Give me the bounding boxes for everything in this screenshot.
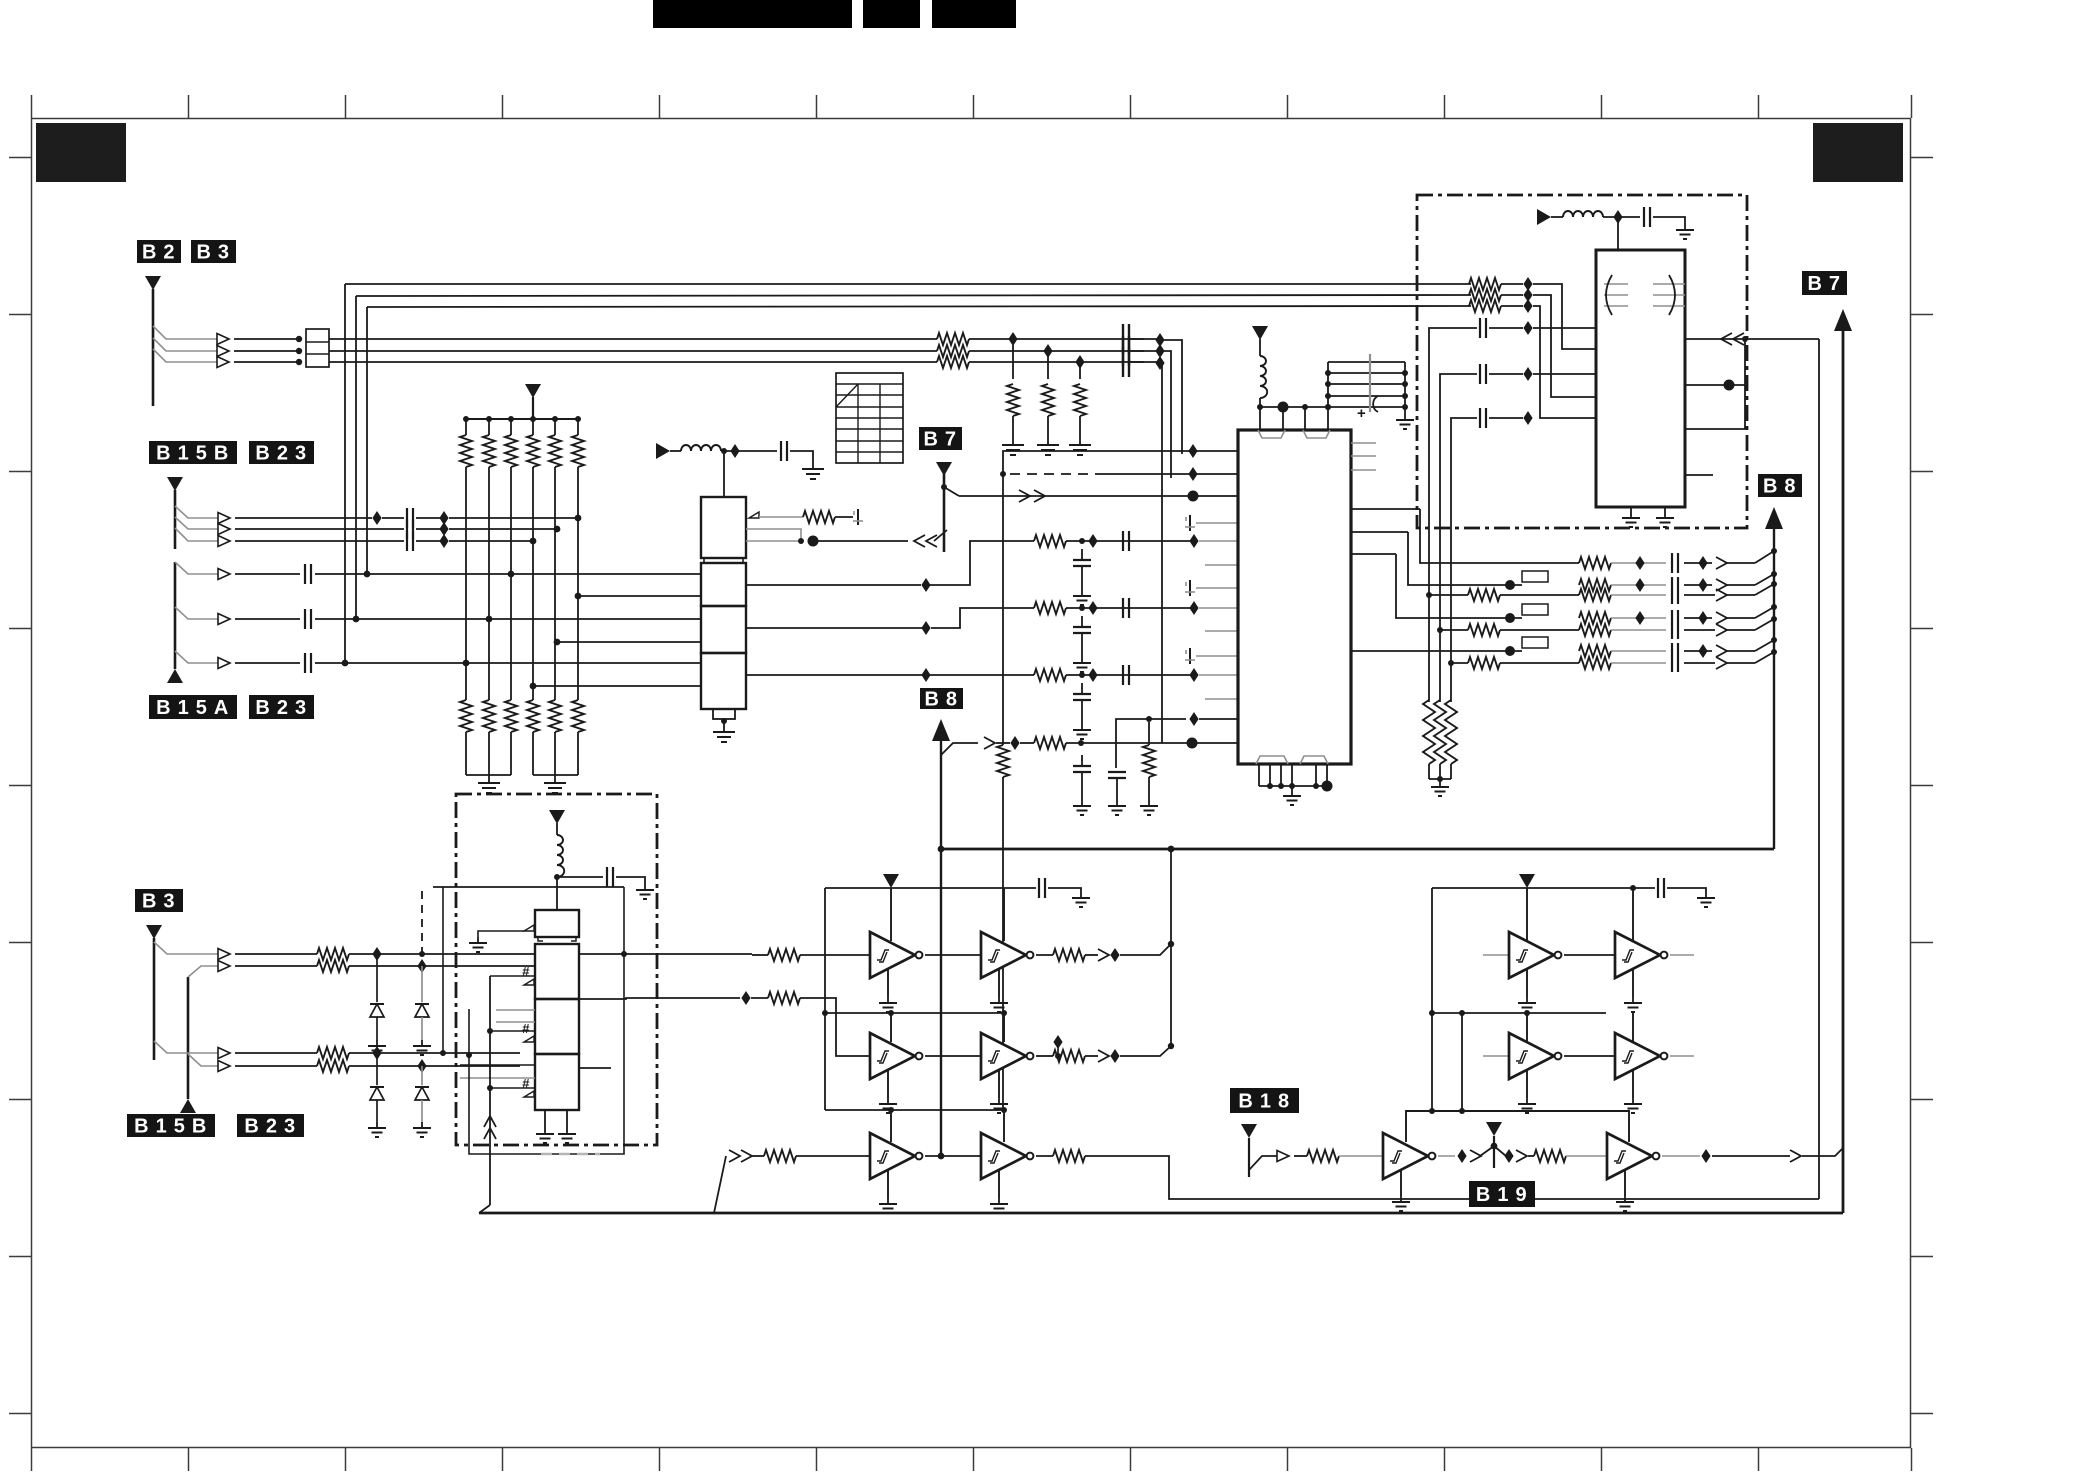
resistor R out row2: [1053, 1050, 1085, 1062]
junction diamond: [741, 991, 750, 1005]
wire: [931, 608, 1034, 628]
junction dot: [1429, 1010, 1435, 1016]
capacitor C rail: [1658, 878, 1664, 898]
resistor R b19: [1534, 1150, 1566, 1162]
resistor R row 3: [1034, 669, 1066, 681]
wire b15b-2: [235, 528, 404, 530]
wire: [1611, 617, 1666, 619]
arrow: [218, 949, 230, 960]
wire: [1630, 507, 1632, 512]
wire branch 2: [175, 517, 222, 529]
resistor R pullup 1: [465, 419, 467, 435]
wire: [1632, 1070, 1634, 1098]
junction diamond: [1008, 332, 1017, 346]
wire: [1129, 350, 1160, 352]
junction dot: [1079, 605, 1085, 611]
wire: [746, 529, 801, 541]
pin marker triangle: [524, 979, 534, 985]
wire: [1351, 469, 1376, 471]
svg-text:#: #: [522, 1021, 530, 1036]
wire branch 3: [175, 651, 222, 663]
resistor R out: [1579, 657, 1611, 669]
wire: [1755, 551, 1774, 563]
wire: [1677, 577, 1679, 604]
resistor R b18: [1307, 1150, 1339, 1162]
power arrow: [883, 874, 899, 888]
junction diamond: [1457, 1149, 1466, 1163]
junction dot: [941, 484, 947, 490]
schmitt inverter: [981, 1133, 1033, 1179]
chevron up: [484, 1128, 496, 1139]
arrow: [218, 569, 230, 580]
wire into IC: [1617, 217, 1619, 250]
chevron: [1716, 612, 1727, 624]
box: [456, 794, 657, 1145]
wire stair 3: [1533, 306, 1596, 418]
arrow: [1277, 1151, 1289, 1162]
capacitor pin bypass: [1185, 580, 1195, 596]
wire: [890, 1013, 892, 1042]
connector stem B2/B3: [152, 289, 155, 406]
label B2: [137, 240, 181, 263]
junction diamond: [1010, 736, 1019, 750]
arrow: [218, 1061, 230, 1072]
wire: [1483, 954, 1509, 956]
junction dot: [1505, 613, 1515, 623]
chevron: [1098, 1050, 1109, 1062]
wire: [188, 1448, 190, 1471]
wire: [1653, 294, 1685, 296]
junction diamond: [439, 522, 448, 536]
inductor L2: [1260, 356, 1267, 398]
wire: [740, 997, 746, 999]
label B3: [191, 240, 236, 263]
chevron up: [484, 1116, 496, 1127]
wire: [554, 732, 556, 775]
wire: [1727, 629, 1755, 631]
wire: [1601, 1448, 1603, 1471]
wire: [1727, 650, 1755, 652]
wire: [1085, 1055, 1098, 1057]
wire: [1440, 629, 1468, 631]
wire: [1294, 1155, 1307, 1157]
chevron: [1716, 579, 1727, 591]
arrow B8 up: [932, 719, 950, 741]
svg-text:B 8: B 8: [1763, 476, 1797, 498]
junction dot: [1302, 404, 1308, 410]
junction dot: [1459, 1010, 1465, 1016]
wire: [1351, 650, 1522, 652]
junction: [296, 348, 302, 354]
arrow on B2 wire 2: [217, 346, 229, 357]
wire tap to IC: [944, 487, 959, 496]
wire: [887, 1070, 889, 1098]
wire branch: [188, 1054, 222, 1066]
wire to ground: [790, 451, 813, 461]
junction diamond: [1523, 321, 1532, 335]
wire: [1259, 407, 1261, 430]
ground: [1069, 437, 1091, 455]
wire: [1081, 633, 1083, 657]
wire: [1036, 1055, 1045, 1057]
wire: [1438, 1155, 1455, 1157]
junction diamond: [1075, 355, 1084, 369]
chevron left: [1721, 333, 1732, 345]
junction dot: [621, 951, 627, 957]
wire branch: [188, 966, 222, 977]
power arrow: [1519, 874, 1535, 888]
wire: [723, 719, 725, 724]
wire: [1611, 629, 1666, 631]
diode D2: [415, 1004, 429, 1017]
diode D3: [370, 1087, 384, 1100]
box: [535, 944, 579, 999]
junction diamond: [921, 621, 930, 635]
wire: [577, 467, 579, 700]
chevron left: [914, 535, 925, 547]
wire: [460, 1077, 535, 1079]
wire: [1066, 674, 1194, 676]
junction dot: [419, 951, 425, 957]
wire: [1351, 531, 1408, 533]
schmitt inverter: [1615, 932, 1667, 978]
wire: [9, 1099, 31, 1101]
arrow B18 feed: [1241, 1124, 1257, 1138]
svg-text:B 2 3: B 2 3: [244, 1116, 296, 1138]
wire: [1328, 372, 1405, 374]
junction diamond: [1523, 299, 1532, 313]
schmitt inverter: [870, 1133, 922, 1179]
wire: [1727, 617, 1755, 619]
wire: [1129, 338, 1160, 340]
power arrow: [525, 384, 541, 398]
wire: [1291, 764, 1293, 786]
wire b15a-1: [235, 573, 300, 575]
wire: [1315, 764, 1317, 786]
wire: [670, 450, 681, 452]
wire: [556, 823, 558, 835]
wire: [1632, 888, 1634, 941]
wire: [1002, 474, 1004, 745]
wire: [890, 1110, 892, 1142]
wire bus entry: [479, 1205, 490, 1213]
wire drop 3: [1160, 363, 1162, 743]
capacitor C: [1644, 207, 1650, 227]
junction diamond: [439, 534, 448, 548]
wire: [1653, 217, 1685, 224]
wire: [9, 471, 31, 473]
ground: [1283, 790, 1301, 805]
wire: [1280, 764, 1282, 786]
box: [1522, 571, 1548, 582]
wire: [1671, 643, 1673, 672]
junction diamond: [1701, 1149, 1710, 1163]
wire: [1003, 1110, 1005, 1142]
wire: [1036, 1155, 1053, 1157]
junction dot: [1000, 471, 1006, 477]
wire: [1258, 764, 1260, 786]
connector arrow B2/B3: [145, 276, 161, 290]
wire: [315, 662, 701, 664]
connector arrow B15B lower: [180, 1099, 196, 1113]
wire: [704, 558, 710, 563]
resistor Rg1: [1007, 384, 1019, 416]
wire: [1010, 473, 1100, 475]
junction dot: [1437, 627, 1443, 633]
wire: [1684, 562, 1712, 564]
wire: [1326, 764, 1328, 786]
wire: [376, 954, 378, 1002]
junction dot: [1771, 571, 1777, 577]
junction dot: [1267, 783, 1273, 789]
ground: [1656, 512, 1674, 527]
junction diamond: [1504, 1149, 1513, 1163]
wire: [488, 467, 490, 700]
resistor R pullup 2: [488, 419, 490, 435]
ground: [990, 997, 1008, 1012]
wire drop 1: [1429, 328, 1477, 702]
junction diamond: [439, 511, 448, 525]
resistor R pullup 6: [577, 419, 579, 435]
wire: [490, 1030, 535, 1032]
wire: [1199, 607, 1238, 609]
wire branch 1: [175, 506, 222, 518]
wire between inverters: [1564, 1055, 1615, 1057]
resistor R in1: [1469, 278, 1501, 290]
wire feedback: [1406, 1111, 1629, 1142]
diode D4: [415, 1087, 429, 1100]
junction dot: [1402, 370, 1408, 376]
wire: [1533, 327, 1596, 329]
wire: [1712, 1155, 1790, 1157]
wire: [1304, 407, 1306, 430]
wire: [31, 95, 33, 118]
junction: [721, 448, 727, 454]
junction: [296, 336, 302, 342]
wire net 3: [329, 361, 937, 363]
svg-text:+: +: [1357, 405, 1366, 422]
wire: [1429, 778, 1451, 780]
wire: [496, 1009, 535, 1011]
wire: [1196, 655, 1238, 657]
ground: [1073, 590, 1091, 605]
wire: [541, 1153, 600, 1156]
box: [1522, 637, 1548, 648]
junction: [530, 683, 537, 690]
junction dot: [1325, 370, 1331, 376]
label B7 (right): [1802, 271, 1847, 295]
wire: [1205, 698, 1238, 700]
wire: [1444, 95, 1446, 118]
wire: [998, 1170, 1000, 1198]
wire: [1624, 1170, 1626, 1196]
wire: [376, 1053, 378, 1085]
resistor R row 1: [1034, 535, 1066, 547]
box: [306, 329, 329, 367]
wire: [1057, 1047, 1059, 1056]
junction: [508, 416, 514, 422]
junction big: [808, 536, 819, 547]
schmitt inverter: [1509, 1033, 1561, 1079]
wire between inverters: [1564, 954, 1615, 956]
ground: [1622, 512, 1640, 527]
stub pin: [1685, 474, 1713, 476]
junction dot: [1771, 637, 1777, 643]
svg-text:B 1 5 A: B 1 5 A: [156, 697, 230, 719]
wire: [1066, 742, 1238, 744]
wire: [153, 338, 221, 351]
wire: [349, 965, 535, 967]
pin marker triangle: [524, 1036, 534, 1042]
wire: [1758, 1448, 1760, 1471]
wire: [1258, 430, 1285, 438]
wire: [1196, 587, 1238, 589]
wire: [1003, 451, 1238, 474]
ground: [990, 1198, 1008, 1213]
wire: [31, 1448, 33, 1471]
wire: [1129, 361, 1160, 363]
wire: [1339, 1155, 1383, 1157]
wire: [1085, 954, 1098, 956]
junction dot: [888, 1107, 894, 1113]
wire: [721, 450, 777, 452]
label B19: [1469, 1181, 1535, 1207]
wire rail row2: [825, 1012, 1004, 1014]
wire: [1404, 407, 1406, 414]
redacted title bar 3: [932, 0, 1016, 28]
resistor R b3-3: [317, 1047, 349, 1059]
wire: [1566, 1155, 1607, 1157]
junction: [463, 416, 469, 422]
svg-text:B 1 5 B: B 1 5 B: [134, 1116, 208, 1138]
ground: [1073, 657, 1091, 672]
wire rail row2: [1432, 1012, 1606, 1014]
capacitor C series 2: [1123, 336, 1129, 366]
wire: [1130, 95, 1132, 118]
wire: [1494, 1146, 1506, 1156]
diode D1: [370, 1004, 384, 1017]
ground: [1108, 800, 1126, 815]
wire riser to bus: [489, 976, 491, 1205]
wire: [449, 540, 533, 542]
connector arrow B15B: [167, 477, 183, 491]
wire: [460, 1064, 535, 1066]
wire: [751, 997, 768, 999]
wire: [1003, 1013, 1005, 1042]
resistor R out2: [1468, 589, 1500, 601]
resistor: [483, 700, 495, 732]
junction diamond: [1523, 367, 1532, 381]
chevron: [1098, 949, 1109, 961]
wire: [1081, 549, 1083, 560]
wire: [1115, 743, 1117, 768]
junction diamond: [1523, 288, 1532, 302]
resistor: [505, 700, 517, 732]
ground: [1431, 781, 1449, 796]
junction dot: [1429, 1108, 1435, 1114]
wire: [9, 1256, 31, 1258]
wire top bus A: [345, 283, 1471, 285]
arrow on B2 wire 3: [217, 357, 229, 368]
resistor R out: [1579, 624, 1611, 636]
junction dot: [1146, 716, 1152, 722]
ground: [879, 997, 897, 1012]
box: [1238, 430, 1351, 764]
wire: [556, 877, 558, 910]
chevron: [741, 1150, 752, 1162]
label B8 (right): [1758, 474, 1802, 497]
wire: [1684, 650, 1712, 652]
supply arrow: [656, 443, 670, 459]
wire: [1328, 395, 1405, 397]
schmitt inverter: [870, 1033, 922, 1079]
wire: [502, 95, 504, 118]
chevron: [1716, 557, 1727, 569]
inductor L3: [1563, 211, 1603, 217]
wire: [1500, 629, 1579, 631]
svg-text:B 1 9: B 1 9: [1476, 1184, 1528, 1206]
junction dot: [1402, 404, 1408, 410]
wire: [1611, 584, 1666, 586]
junction dot: [1325, 393, 1331, 399]
wire: [1526, 1013, 1528, 1042]
wire: [836, 383, 903, 385]
wire from block pin: [746, 584, 921, 586]
pin triangle: [524, 925, 534, 931]
junction dot: [1437, 776, 1443, 782]
wire: [1047, 351, 1049, 379]
chevron: [1716, 624, 1727, 636]
wire: [1670, 1055, 1694, 1057]
resistor R out2: [1468, 657, 1500, 669]
wire: [969, 338, 1144, 340]
capacitor pin bypass: [853, 509, 863, 525]
resistor R b3-2: [317, 960, 349, 972]
ground: [558, 1128, 576, 1143]
capacitor plate: [1369, 354, 1371, 412]
wire supply into block: [723, 451, 725, 497]
wire riser from bus: [714, 1156, 726, 1213]
resistor R series 3: [937, 356, 969, 368]
resistor R pullup 5: [554, 419, 556, 435]
wire: [349, 953, 535, 955]
wire: [659, 95, 661, 118]
resistor: [460, 435, 472, 467]
junction dot: [1325, 381, 1331, 387]
arrow B8 up: [1765, 507, 1783, 529]
svg-text:B 3: B 3: [142, 891, 176, 913]
wire: [1911, 785, 1933, 787]
wire: [1755, 574, 1774, 585]
wire: [345, 95, 347, 118]
svg-text:B 2 3: B 2 3: [255, 697, 307, 719]
wire: [465, 467, 467, 700]
wire: [836, 406, 903, 408]
junction dot: [440, 1050, 446, 1056]
wire: [973, 1448, 975, 1471]
junction dot: [1322, 781, 1333, 792]
junction dot: [1079, 672, 1085, 678]
inductor L1: [681, 445, 721, 451]
wire: [1632, 969, 1634, 997]
wire: [934, 530, 947, 541]
junction big: [1278, 402, 1289, 413]
wire b15a-3: [235, 662, 300, 664]
capacitor C decouple: [1073, 560, 1091, 566]
junction diamond: [1523, 411, 1532, 425]
junction dot: [1168, 941, 1174, 947]
junction diamond: [1155, 333, 1164, 347]
